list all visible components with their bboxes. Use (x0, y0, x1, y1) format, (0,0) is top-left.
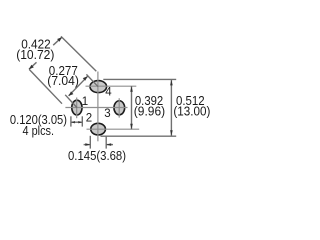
pad 1 vertical centerline (76, 98, 78, 119)
svg-text:4: 4 (105, 87, 112, 99)
svg-text:4 plcs.: 4 plcs. (23, 123, 55, 138)
svg-text:(13.00): (13.00) (173, 103, 210, 118)
arrow up 0.512 (170, 80, 173, 86)
dimension line 0.422 lower segment (29, 62, 37, 69)
vertical centerline pads 4-2 (97, 72, 99, 142)
extension line bottom for 0.512 (101, 135, 177, 137)
pad 4 (90, 81, 107, 93)
arrow up 0.392 (130, 86, 133, 92)
svg-text:(7.04): (7.04) (47, 73, 79, 88)
pad 3 (114, 101, 125, 115)
pad 2 (91, 123, 106, 135)
pad 4 horizontal centerline / extension for 0.392 (86, 85, 137, 87)
dimension line 0.277 (69, 76, 88, 96)
svg-text:1: 1 (82, 96, 88, 108)
dimension line 0.422 upper segment (53, 37, 62, 45)
svg-text:0.145(3.68): 0.145(3.68) (68, 148, 126, 163)
extension line left for 0.145 (89, 136, 91, 149)
extension line top for 0.512 (103, 78, 176, 80)
pad 3 vertical centerline (118, 98, 120, 117)
svg-text:2: 2 (86, 112, 92, 124)
pad 2 horizontal centerline / extension for 0.392 (87, 128, 140, 130)
double arrow 0.120 (71, 121, 82, 123)
arrow left 0.145 (84, 144, 91, 146)
extension line right for 0.120 (81, 116, 83, 126)
diagonal extension line L2 to pad 4 center (86, 74, 98, 86)
extension line right for 0.145 (105, 136, 107, 149)
arrow NE 0.422 (57, 37, 62, 42)
arrow down 0.512 (170, 130, 173, 136)
pad 1 (72, 100, 82, 115)
horizontal centerline pads 1-3 (65, 107, 127, 109)
arrow right 0.145 (106, 144, 113, 146)
extension line left for 0.120 (70, 116, 72, 126)
svg-text:(9.96): (9.96) (134, 103, 165, 118)
svg-text:(10.72): (10.72) (16, 47, 54, 62)
arrow SW 0.277 (69, 91, 74, 96)
arrow NE 0.277 (83, 76, 88, 81)
dimension line 0.392 (131, 86, 133, 129)
dimension line 0.512 (170, 79, 172, 136)
svg-text:3: 3 (104, 108, 110, 120)
diagonal extension line L1 (0.422 outer) (61, 36, 96, 71)
diagonal extension line L4 (0.422 lower) (29, 69, 62, 103)
arrow down 0.392 (130, 124, 133, 130)
diagonal extension line L3 to pad 1 center (65, 95, 77, 108)
arrow SW 0.422 (29, 65, 34, 70)
